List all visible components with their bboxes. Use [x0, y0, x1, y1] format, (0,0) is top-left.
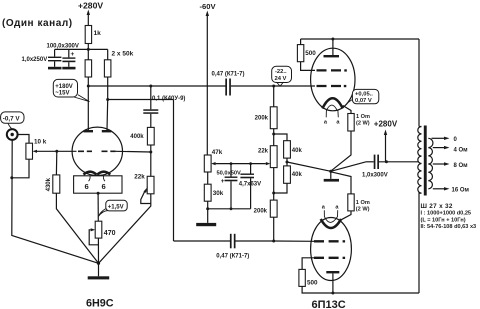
tap 16 Ом — [433, 187, 470, 194]
svg-text:47k: 47k — [212, 149, 223, 156]
svg-text:(Один канал): (Один канал) — [2, 18, 73, 29]
svg-text:430k: 430k — [46, 177, 52, 191]
svg-text:470: 470 — [104, 230, 116, 237]
V1 cathode left — [84, 172, 97, 175]
capacitor 0,1 (К40У-9) — [143, 86, 185, 127]
V3 heater — [322, 205, 340, 223]
svg-text:-0,7 V: -0,7 V — [3, 116, 21, 123]
resistor 470 (rheostat) — [89, 221, 115, 263]
bubble -22..24V — [272, 66, 292, 86]
svg-text:22k: 22k — [258, 149, 269, 155]
node B+ wire — [55, 48, 108, 51]
bubble +1,5V — [98, 200, 127, 216]
svg-text:+0,05..: +0,05.. — [355, 91, 373, 97]
V2 cathode — [322, 98, 342, 108]
V1 anode left — [84, 86, 94, 132]
svg-text:+1,5V: +1,5V — [108, 204, 124, 210]
V1 grid left — [57, 150, 92, 152]
svg-text:6: 6 — [85, 182, 89, 191]
svg-text:0,47 (К71-7): 0,47 (К71-7) — [212, 71, 245, 77]
capacitor 1,0x300V — [331, 155, 418, 179]
svg-text:(L = 10Гн + 10Гн): (L = 10Гн + 10Гн) — [421, 217, 466, 223]
ground (main left) — [88, 276, 110, 279]
bubble +180V ~15V — [53, 79, 89, 101]
svg-text:200k: 200k — [254, 208, 268, 214]
V3 cathode lead + resistor 1 Om (2W) lower — [331, 172, 370, 220]
input jack — [7, 129, 29, 143]
svg-text:50,0x50V: 50,0x50V — [217, 170, 242, 176]
resistor 1k — [85, 26, 101, 50]
tube V3 6П13С (lower) envelope — [311, 218, 352, 281]
resistor 200k lower — [254, 200, 277, 241]
svg-text:40k: 40k — [292, 172, 303, 178]
svg-text:40k: 40k — [292, 148, 303, 154]
svg-text:4,7x63V: 4,7x63V — [239, 182, 261, 188]
ground (divider) — [196, 223, 216, 226]
svg-text:500: 500 — [305, 50, 316, 57]
svg-text:1,0x300V: 1,0x300V — [362, 173, 388, 179]
tap 8 Ом — [433, 162, 468, 169]
svg-text:Ш 27 x 32: Ш 27 x 32 — [421, 203, 453, 210]
capacitor 0,47 (К71-7) lower — [216, 234, 275, 259]
svg-text:+: + — [221, 178, 225, 185]
svg-text:100,0x300V: 100,0x300V — [47, 43, 79, 49]
wire jack shell to ground — [10, 140, 98, 264]
V2 cathode lead + resistor 1 Om (2W) upper — [331, 106, 370, 171]
wire2 (2nd triode plate to lower coupling cap) — [106, 98, 230, 241]
svg-text:200k: 200k — [255, 115, 269, 121]
ground (output stage bar) — [324, 179, 339, 182]
svg-text:4 Ом: 4 Ом — [454, 147, 469, 153]
capacitor 50,0x50V — [217, 162, 242, 210]
capacitor 4,7x63V — [239, 162, 261, 209]
svg-text:8 Ом: 8 Ом — [454, 163, 469, 169]
svg-text:10 k: 10 k — [34, 138, 47, 145]
V3 anode — [326, 271, 339, 295]
potentiometer 10k — [12, 138, 59, 177]
ground (caps) — [48, 67, 62, 70]
svg-text:22k: 22k — [134, 174, 145, 181]
ground node (input stage) — [97, 262, 100, 277]
power +280V top — [78, 1, 103, 26]
resistor 430k — [46, 151, 98, 263]
tap 0 — [432, 137, 458, 144]
svg-text:2 x 50k: 2 x 50k — [112, 51, 134, 58]
resistors 40k pair — [274, 134, 331, 193]
svg-text:1,0x250V: 1,0x250V — [22, 57, 48, 63]
V2 screen grid — [317, 69, 347, 71]
svg-text:~15V: ~15V — [55, 91, 69, 97]
svg-text:24 V: 24 V — [275, 76, 287, 82]
resistor 400k — [130, 127, 154, 152]
potentiometer 47k — [204, 149, 265, 184]
capacitor 0,47 (К71-7) upper — [212, 71, 276, 95]
transformer spec text — [421, 203, 477, 230]
V2 anode — [324, 39, 340, 57]
transformer T1 primary — [418, 127, 422, 294]
V3 control grid — [274, 240, 345, 242]
bubble +0,05..0,07V — [346, 89, 379, 105]
bubble -0,7 V — [1, 112, 24, 129]
resistor 30k — [204, 184, 250, 223]
svg-text:I : 1000+1000 d0,25: I : 1000+1000 d0,25 — [421, 211, 472, 217]
capacitor 100,0x300V — [47, 43, 79, 67]
V1 anode right — [102, 100, 112, 133]
resistor 500 lower — [299, 269, 419, 293]
V2 control grid — [274, 85, 347, 87]
svg-text:+280V: +280V — [374, 119, 398, 128]
potentiometer 22k (V1 right) — [99, 152, 155, 263]
svg-text:6Н9С: 6Н9С — [86, 298, 114, 309]
wire top (anode V2 to transformer) — [301, 38, 419, 127]
tube V1 6Н9С envelope — [72, 127, 122, 175]
V1 cathode right — [97, 172, 110, 175]
svg-text:0,47 (К71-7): 0,47 (К71-7) — [216, 253, 249, 259]
svg-text:1 Om: 1 Om — [356, 114, 370, 120]
ground (cap2) — [62, 67, 75, 70]
svg-text:1 Om: 1 Om — [356, 200, 370, 206]
node A (+180V plate node) wire — [87, 85, 226, 88]
tap 4 Ом — [433, 146, 468, 154]
ground node (output stage) — [329, 170, 332, 179]
transformer T1 secondary — [428, 138, 433, 189]
power +280V (output) — [374, 119, 398, 161]
V2 heater — [324, 105, 341, 125]
svg-text:6: 6 — [102, 182, 106, 191]
tube V2 6П13С (upper) envelope — [311, 48, 355, 111]
svg-text:-22..: -22.. — [275, 69, 287, 75]
svg-text:400k: 400k — [130, 134, 144, 140]
svg-text:30k: 30k — [213, 190, 224, 197]
svg-text:(2 W): (2 W) — [356, 121, 370, 127]
svg-text:(2 W): (2 W) — [356, 206, 370, 212]
capacitor 1,0x250V — [22, 49, 62, 66]
V1 grid right — [102, 151, 153, 154]
svg-text:16 Ом: 16 Ом — [452, 188, 470, 194]
resistors 2 x 50k — [85, 49, 133, 99]
svg-text:6П13С: 6П13С — [312, 299, 346, 309]
svg-text:+280V: +280V — [78, 1, 103, 11]
svg-text:1k: 1k — [94, 30, 102, 37]
transformer core — [424, 126, 427, 196]
V1 heater box with pins 6 6 — [74, 176, 122, 221]
svg-text:500: 500 — [307, 279, 318, 286]
svg-text:+180V: +180V — [55, 84, 73, 90]
svg-text:+: + — [71, 51, 75, 58]
V3 cathode — [321, 219, 341, 228]
svg-text:0,07 V: 0,07 V — [355, 98, 372, 104]
V3 screen grid — [302, 257, 345, 270]
svg-text:II: 54-76-108 d0,63 x3: II: 54-76-108 d0,63 x3 — [421, 224, 477, 230]
supply -60V — [200, 2, 217, 155]
resistor 500 upper (g2 stopper) — [297, 39, 316, 70]
svg-text:-60V: -60V — [200, 2, 217, 11]
potentiometer 22k (divider) — [255, 86, 277, 200]
